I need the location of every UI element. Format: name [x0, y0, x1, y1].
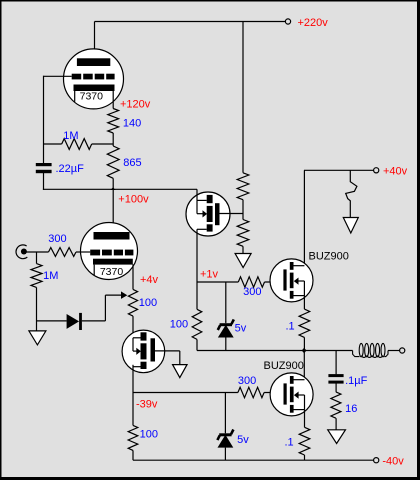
label .1 lower: [285, 437, 294, 449]
resistor divider upper: [237, 173, 249, 200]
wire Q1 gate: [220, 213, 244, 215]
wire 100 mid to out rail: [196, 339, 198, 350]
wire 1M2 top tee: [36, 252, 38, 264]
wire 300 to Q4 gate: [264, 392, 284, 394]
svg-text:7370: 7370: [80, 90, 104, 102]
wire divider to gnd: [242, 246, 244, 253]
svg-text:1M: 1M: [43, 270, 58, 282]
label 100 mid: [170, 318, 188, 330]
ground 16: [328, 430, 346, 444]
wire 1M2 to diode line: [36, 287, 38, 331]
svg-text:300: 300: [238, 375, 256, 387]
label +1v: [200, 269, 219, 281]
resistor 1M input: [31, 264, 42, 288]
svg-text:300: 300: [243, 286, 261, 298]
wire output rail: [197, 350, 353, 352]
wire Q3 drain: [303, 170, 305, 265]
wire V2 cathode: [132, 264, 134, 289]
wire .1 to bottom rail: [304, 455, 306, 460]
label 5v upper: [235, 322, 247, 334]
resistor 100 lower-left chain: [128, 393, 138, 451]
svg-text:+40v: +40v: [383, 166, 408, 178]
resistor 100 mid: [192, 309, 202, 339]
resistor 300 upper: [238, 277, 264, 287]
svg-text:7370: 7370: [100, 266, 124, 278]
resistor .1 upper: [299, 309, 310, 337]
svg-text:100: 100: [140, 429, 158, 441]
wire -39v rail: [133, 392, 238, 394]
wire coil to terminal: [388, 350, 400, 352]
ground Q2 gate: [173, 365, 188, 378]
ground input: [29, 331, 46, 345]
label 1M: [63, 130, 78, 142]
svg-text:16: 16: [345, 403, 357, 415]
wire left vertical upper: [43, 76, 45, 164]
wire 300 to Q3 gate: [265, 281, 284, 283]
label 100 lower: [140, 429, 158, 441]
svg-text:100: 100: [139, 297, 157, 309]
inductor L1: [353, 343, 388, 357]
label .1 upper: [286, 321, 295, 333]
wire cap2 to 16: [335, 383, 337, 392]
wire Q3 source: [303, 296, 305, 310]
triode V1 7370: [64, 49, 124, 109]
zener Z2 5v: [217, 393, 233, 461]
wire out to Q4 drain: [303, 351, 305, 380]
wire wiper horizontal: [105, 294, 121, 296]
resistor 140: [108, 109, 119, 134]
wire 140-865: [112, 133, 114, 146]
resistor 16: [331, 392, 341, 418]
svg-text:5v: 5v: [235, 322, 247, 334]
wire input left: [26, 251, 49, 253]
label 300 lower: [238, 375, 256, 387]
label +4v: [140, 274, 159, 286]
wire grid V1: [44, 75, 72, 77]
label 140: [123, 118, 141, 130]
wire wiper vertical: [104, 295, 106, 321]
mosfet Q2: [122, 330, 165, 373]
capacitor .22uF: [36, 163, 52, 173]
svg-text:.22µF: .22µF: [56, 163, 85, 175]
label -39v: [136, 399, 158, 411]
label 865: [123, 157, 141, 169]
label 16: [345, 403, 357, 415]
zener Z1 5v: [218, 282, 234, 351]
wire cap to node line: [43, 173, 45, 190]
label BUZ900 lower: [264, 360, 304, 372]
wire node horizontal: [43, 188, 197, 190]
svg-text:+1v: +1v: [200, 269, 219, 281]
label +220v: [298, 17, 329, 29]
terminal +220v: [285, 19, 290, 24]
terminal input jack: [16, 245, 27, 259]
terminal +40v: [374, 168, 379, 173]
mosfet Q1: [186, 192, 230, 236]
label 300 input: [48, 233, 66, 245]
resistor 300 input: [49, 248, 77, 257]
wire V1 cathode: [112, 91, 114, 109]
label +100v: [118, 194, 149, 206]
svg-text:-40v: -40v: [382, 456, 404, 468]
label BUZ900 upper: [309, 250, 349, 262]
svg-text:BUZ900: BUZ900: [309, 250, 349, 262]
svg-text:+100v: +100v: [118, 194, 149, 206]
resistor divider lower: [237, 220, 249, 247]
junction output: [302, 348, 307, 353]
wire -40v rail: [133, 459, 374, 461]
wire 865 to node: [112, 178, 114, 189]
pot wiper arrow: [121, 291, 127, 299]
wire diode line right: [82, 320, 106, 322]
svg-text:100: 100: [170, 318, 188, 330]
wire out to cap2: [335, 351, 337, 375]
label 5v lower: [237, 434, 249, 446]
wire diode line left: [37, 320, 67, 322]
label 300 upper: [243, 286, 261, 298]
wire +1v rail: [197, 281, 238, 283]
junction node 100v: [111, 187, 116, 190]
wire divider mid: [242, 200, 244, 220]
wire tube V1 plate to rail: [94, 22, 96, 59]
wire Q2 gate: [155, 350, 180, 352]
wire Q4 source: [304, 410, 306, 428]
ground +40v: [343, 218, 358, 234]
label +40v: [383, 166, 408, 178]
resistor 1M: [62, 139, 92, 150]
svg-text:5v: 5v: [237, 434, 249, 446]
wire divider drop from rail: [242, 22, 244, 173]
triode V2 7370: [81, 223, 138, 280]
svg-text:+220v: +220v: [298, 17, 329, 29]
potentiometer 100: [128, 289, 137, 316]
mosfet Q3 BUZ900: [270, 259, 313, 302]
resistor .1 lower: [299, 427, 310, 455]
wire 16 to gnd: [335, 418, 337, 430]
wire Q2 gate down: [179, 351, 181, 365]
svg-text:.1: .1: [286, 321, 295, 333]
wire Q1 source down: [196, 229, 198, 309]
svg-text:+4v: +4v: [140, 274, 159, 286]
wire 1M left: [44, 143, 62, 145]
svg-text:865: 865: [123, 157, 141, 169]
svg-text:+120v: +120v: [120, 98, 151, 110]
label 100 pot: [139, 297, 157, 309]
resistor 865: [107, 146, 119, 178]
mosfet Q4 BUZ900: [270, 373, 313, 416]
wire 1M right: [92, 143, 114, 145]
wire squiggle: [346, 170, 357, 217]
svg-text:300: 300: [48, 233, 66, 245]
svg-text:.1µF: .1µF: [345, 375, 368, 387]
wire .1 to out: [303, 337, 305, 350]
wire 300 to V2 grid: [76, 251, 90, 253]
svg-text:140: 140: [123, 118, 141, 130]
terminal -40v: [374, 458, 379, 463]
ground divider: [235, 254, 251, 268]
label +120v: [120, 98, 151, 110]
label 1M input: [43, 270, 58, 282]
wire node to V2 plate: [112, 189, 114, 232]
svg-text:.1: .1: [285, 437, 294, 449]
wire 100 to bottom rail: [132, 450, 134, 460]
wire +220v rail: [95, 21, 286, 23]
diode D1: [67, 313, 82, 330]
wire +40v rail: [304, 169, 374, 171]
wire Q2 source: [132, 365, 134, 393]
resistor 300 lower: [238, 387, 264, 397]
wire node to Q1: [196, 189, 198, 200]
wire pot to Q2: [132, 316, 134, 337]
svg-text:1M: 1M: [63, 130, 78, 142]
svg-text:-39v: -39v: [136, 399, 158, 411]
svg-text:BUZ900: BUZ900: [264, 360, 304, 372]
label .1uF: [345, 375, 368, 387]
terminal output: [400, 348, 405, 353]
label -40v: [382, 456, 404, 468]
label .22uF: [56, 163, 85, 175]
capacitor .1uF: [328, 374, 343, 384]
